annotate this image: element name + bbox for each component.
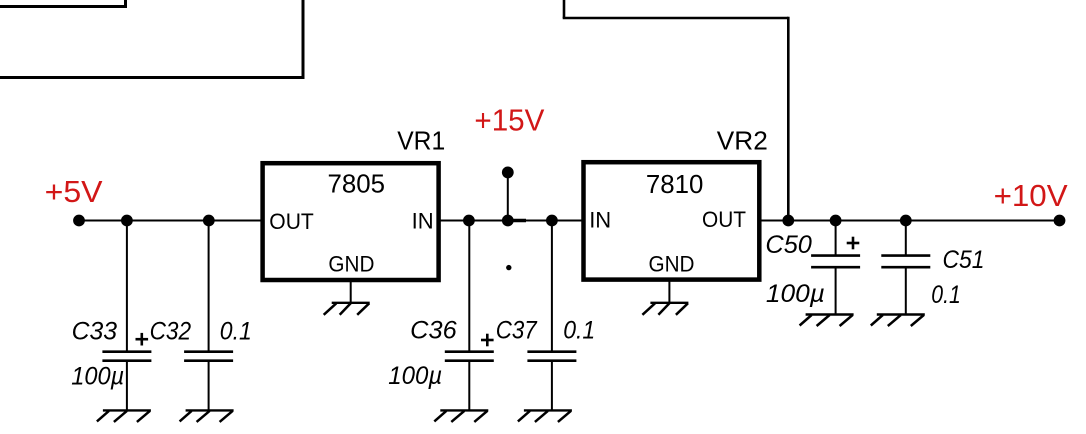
- svg-text:+15V: +15V: [474, 102, 544, 137]
- svg-text:+10V: +10V: [994, 178, 1068, 213]
- svg-text:7810: 7810: [646, 169, 704, 199]
- svg-text:OUT: OUT: [269, 209, 314, 234]
- svg-text:0.1: 0.1: [220, 318, 252, 346]
- svg-text:C50: C50: [765, 231, 812, 259]
- svg-text:IN: IN: [589, 208, 611, 233]
- svg-text:100µ: 100µ: [71, 363, 124, 391]
- svg-text:OUT: OUT: [702, 207, 746, 232]
- svg-text:IN: IN: [412, 208, 434, 233]
- svg-text:C37: C37: [496, 316, 538, 344]
- svg-text:+5V: +5V: [45, 174, 103, 209]
- svg-text:7805: 7805: [328, 168, 386, 198]
- svg-text:0.1: 0.1: [931, 281, 961, 309]
- svg-text:C51: C51: [943, 246, 985, 274]
- svg-text:0.1: 0.1: [563, 316, 595, 344]
- svg-text:VR1: VR1: [397, 126, 445, 156]
- svg-text:100µ: 100µ: [766, 280, 825, 308]
- svg-text:C36: C36: [410, 316, 457, 344]
- svg-text:GND: GND: [328, 252, 374, 277]
- svg-text:C32: C32: [150, 318, 192, 346]
- svg-text:C33: C33: [72, 318, 118, 346]
- svg-text:VR2: VR2: [717, 126, 768, 156]
- svg-text:100µ: 100µ: [388, 362, 442, 390]
- svg-text:GND: GND: [649, 252, 695, 277]
